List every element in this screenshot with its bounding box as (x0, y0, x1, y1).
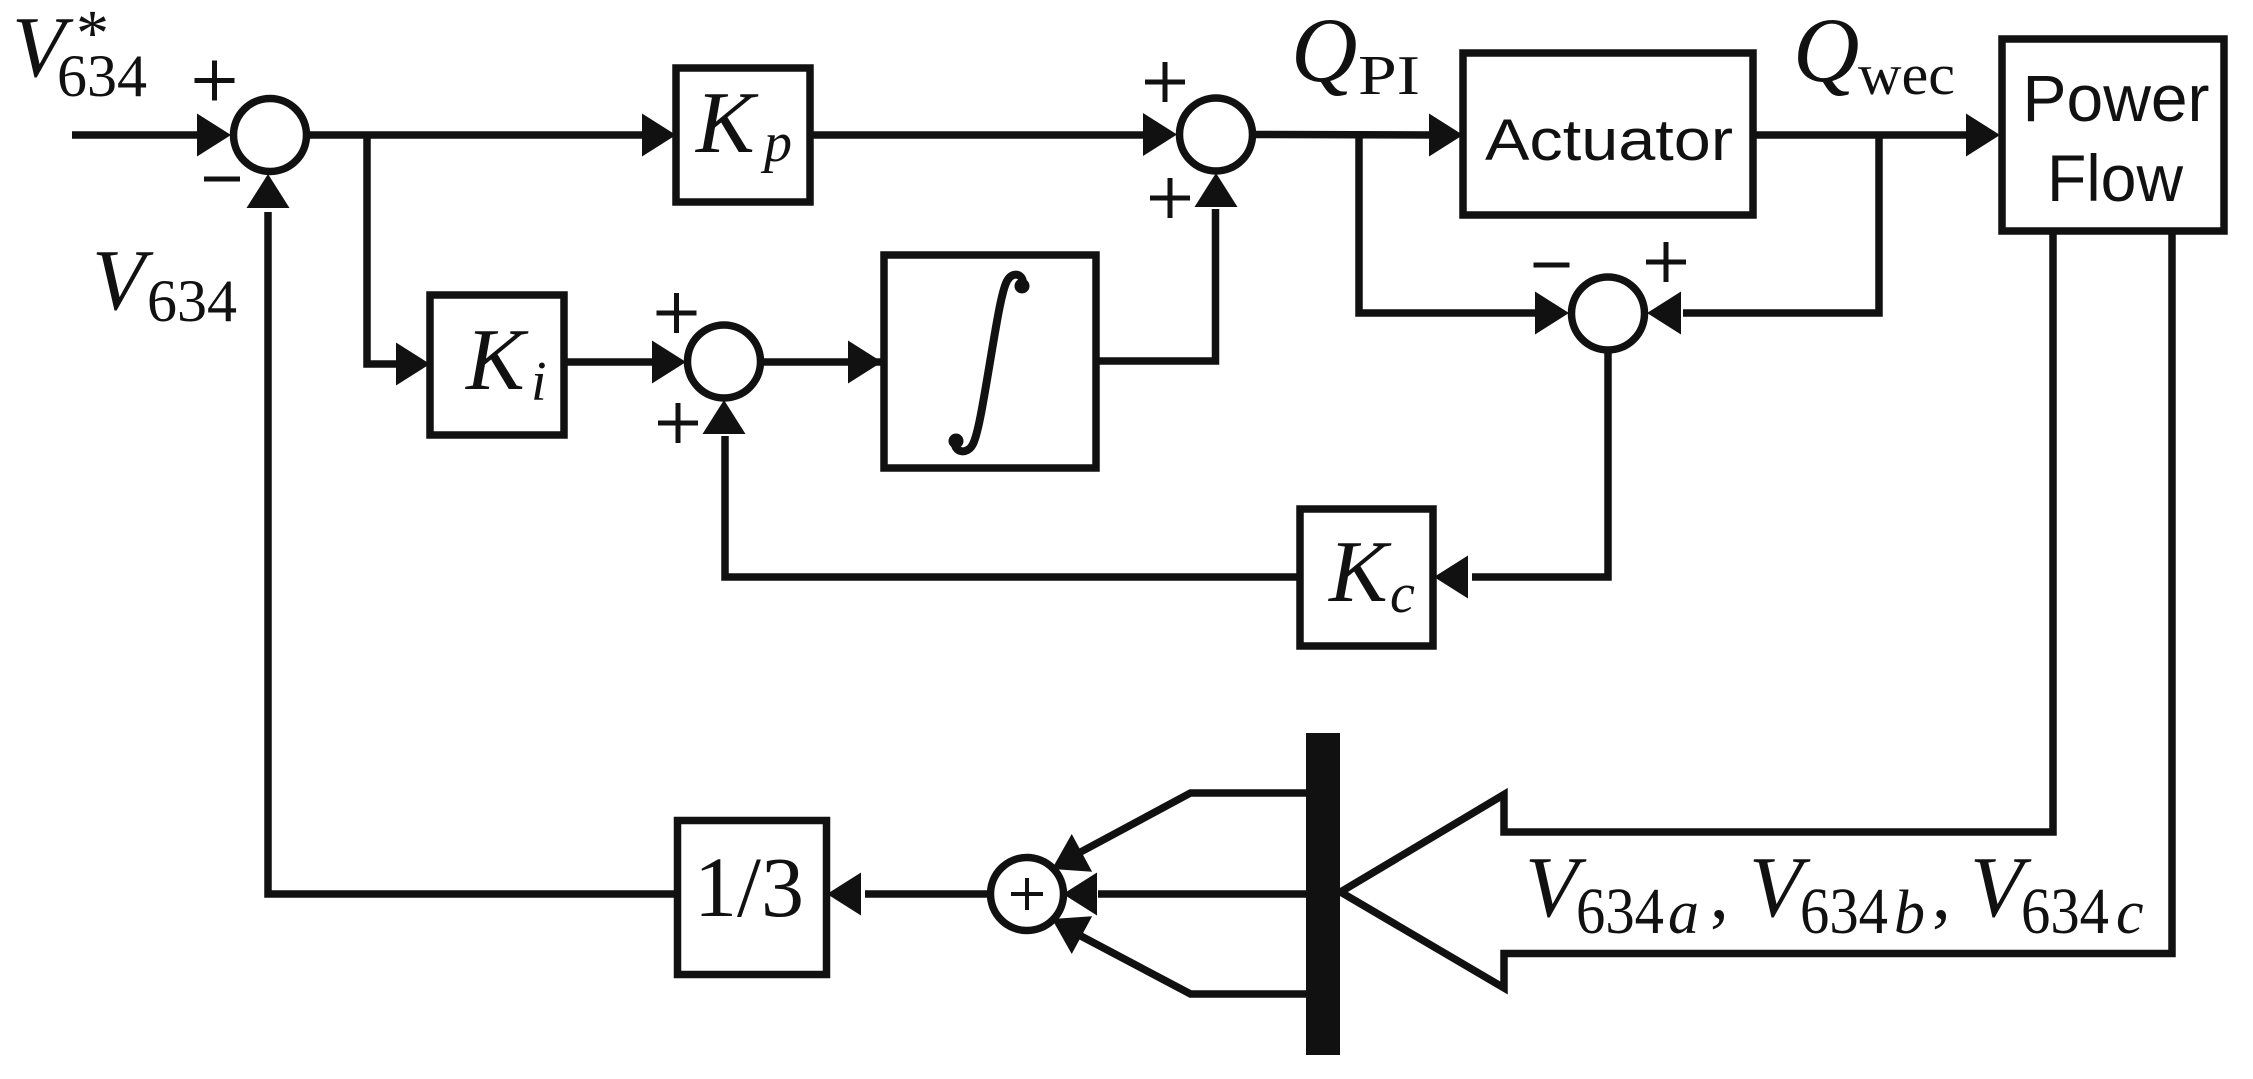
arrowhead into S4 bottom (703, 400, 746, 434)
summing junction S5 (991, 858, 1064, 931)
wire QPI branch down to S3 (1359, 135, 1539, 313)
block integrator (884, 255, 1096, 468)
plus at S2 lower (1150, 196, 1190, 201)
bus bar (1306, 733, 1340, 1055)
plus sign inside S5 (1011, 878, 1043, 910)
plus at S4 upper (657, 311, 697, 316)
block 1/3 (678, 821, 827, 975)
wire Kp to S2 (810, 131, 1147, 139)
svg-text:Q: Q (1793, 0, 1859, 101)
plus at S2 upper (1145, 80, 1185, 85)
wire feedback S5 output to 1/3 (865, 890, 990, 898)
arrowhead into S1 (197, 114, 231, 157)
wire bus middle to S5 (1098, 890, 1306, 898)
svg-text:Flow: Flow (2047, 141, 2183, 215)
svg-text:634: 634 (147, 268, 237, 334)
arrowhead into Actuator (1429, 114, 1463, 157)
arrowhead into Kp (642, 114, 676, 157)
svg-text:634: 634 (1576, 875, 1664, 948)
wire Actuator to Power Flow (1753, 131, 1970, 139)
wire 1/3 output left and up to S1 (268, 212, 677, 894)
svg-text:K: K (464, 312, 529, 409)
svg-text:634: 634 (2021, 875, 2109, 948)
label Kp (694, 75, 792, 174)
svg-text:i: i (531, 351, 547, 413)
wire S2 to Actuator (1252, 131, 1433, 139)
integrator glyph (955, 275, 1023, 452)
svg-text:b: b (1894, 879, 1925, 947)
svg-text:,: , (1710, 852, 1729, 935)
sign labels (195, 61, 1687, 444)
plus at S4 lower (658, 421, 698, 426)
arrowhead into S4 left (652, 341, 686, 384)
arrowhead into Power Flow (1966, 114, 2000, 157)
arrowhead into S5 lower (1042, 900, 1092, 954)
svg-text:1/3: 1/3 (694, 839, 804, 935)
arrowhead into S5 upper (1042, 834, 1092, 888)
svg-text:Q: Q (1291, 0, 1357, 101)
plus at S3 right (1646, 260, 1686, 265)
plus at S1 input (195, 78, 235, 83)
label Qwec (1793, 0, 1955, 107)
wire input V*634 to S1 (72, 131, 201, 139)
svg-text:Actuator: Actuator (1485, 108, 1733, 173)
label V634a V634b V634c (1525, 838, 2144, 948)
block Ki (430, 295, 564, 435)
wire S4 to integrator (760, 358, 886, 366)
wire integrator up to S2 (1096, 209, 1216, 361)
arrowhead into Kc (1434, 556, 1468, 599)
svg-text:K: K (694, 75, 759, 172)
svg-text:K: K (1327, 524, 1392, 621)
label Kc (1327, 524, 1415, 625)
wire S3 down and left to Kc (1472, 350, 1608, 577)
arrowhead into S5 right (1063, 873, 1097, 916)
label Ki (464, 312, 547, 413)
hollow arrow from Power Flow (1341, 231, 2173, 988)
svg-text:p: p (760, 112, 792, 174)
wire S1 to Kp (306, 131, 646, 139)
block Kp (676, 68, 810, 202)
arrowhead into 1/3 (827, 873, 861, 916)
svg-text:634: 634 (1800, 875, 1888, 948)
svg-text:a: a (1668, 879, 1699, 947)
arrowhead into S2 (1143, 113, 1177, 156)
wire branch down to Ki (367, 135, 400, 364)
arrowhead into S3 right (1647, 292, 1681, 335)
arrowhead into S1 bottom (247, 174, 290, 208)
minus at S3 left (1534, 263, 1570, 268)
arrowhead into Ki (396, 343, 430, 386)
svg-text:c: c (2116, 879, 2144, 947)
arrowhead into integrator (848, 341, 882, 384)
label Power Flow (2023, 61, 2210, 215)
wire Ki to S4 (563, 358, 656, 366)
label QPI (1291, 0, 1420, 107)
svg-text:PI: PI (1358, 45, 1420, 107)
summing junction S2 (1180, 98, 1253, 171)
label V*634 reference input (12, 0, 147, 109)
summing junction S1 (234, 99, 307, 172)
block Actuator (1463, 53, 1753, 215)
block Power Flow (2002, 39, 2224, 231)
svg-text:,: , (1932, 852, 1951, 935)
svg-text:wec: wec (1858, 42, 1955, 107)
block Kc (1300, 509, 1433, 646)
summing junction S3 (1572, 277, 1645, 350)
arrowhead into S3 left (1535, 292, 1569, 335)
wire Kc left and up to S4 (725, 436, 1300, 577)
wire bus lower to S5 (1062, 926, 1306, 994)
wire Qwec branch down to S3 (1683, 135, 1879, 313)
minus at S1 feedback (204, 177, 240, 182)
svg-text:c: c (1390, 563, 1415, 625)
summing junction S4 (688, 325, 761, 398)
svg-text:V: V (92, 231, 154, 328)
svg-text:634: 634 (57, 43, 147, 109)
label V634 feedback (92, 231, 237, 334)
wire bus upper to S5 (1062, 793, 1306, 862)
svg-text:Power: Power (2023, 61, 2210, 135)
arrowhead into S2 bottom (1195, 173, 1238, 207)
